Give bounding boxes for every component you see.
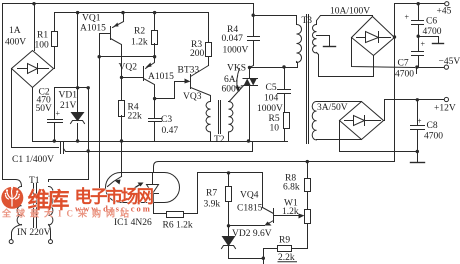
wire R9 left to bottom node <box>264 249 278 259</box>
ground mid bar <box>433 43 444 45</box>
wire T3 upper secondary bottom to bridge2 bottom <box>317 53 374 77</box>
wire LED cathode to R6 <box>154 204 167 214</box>
wire C2 column <box>54 88 56 142</box>
capacitor C1 1/400V plates <box>61 143 64 154</box>
capacitor C6 4700 column <box>418 4 420 52</box>
node dot R7 top <box>227 171 230 174</box>
node dot x88 col top <box>87 86 90 89</box>
capacitor C6 plates <box>412 21 424 25</box>
svg-text:600V: 600V <box>222 85 243 95</box>
wire bottom rail from VD2 <box>229 247 264 259</box>
rectifier bridge1 1A/400V diamond <box>12 51 54 88</box>
terminal IN left <box>9 240 13 244</box>
transformer T2 right winding <box>229 101 234 141</box>
svg-text:104: 104 <box>264 94 279 104</box>
wire bridge1 top corner feed <box>34 4 36 51</box>
wire bridge3 right corner to +12 rail <box>384 100 447 121</box>
transformer T3 lower secondary 3A winding <box>312 101 316 139</box>
transformer T3 primary winding <box>297 24 302 62</box>
svg-text:VD2 9.6V: VD2 9.6V <box>232 229 272 239</box>
node dot VD2/emitter junction <box>227 224 230 227</box>
node sample rail dot R8 <box>306 160 309 163</box>
node C5 top dot <box>282 65 285 68</box>
capacitor C5 104/1000V column <box>284 68 286 113</box>
node C4 top rail corner dot <box>252 14 255 17</box>
svg-text:C6: C6 <box>426 17 437 27</box>
svg-text:VQ1: VQ1 <box>82 14 101 24</box>
diode inside bridge3 <box>345 120 381 122</box>
svg-text:+: + <box>417 117 422 126</box>
transformer T3 core <box>307 15 309 144</box>
capacitor C7 plates <box>412 52 424 56</box>
ground tap bar <box>324 46 336 48</box>
resistor R8 column <box>307 162 309 210</box>
svg-text:T1: T1 <box>29 176 40 186</box>
wire C4 column lower to VKS node <box>250 41 254 68</box>
svg-text:C3: C3 <box>161 115 172 125</box>
wire VD2 top column R7 <box>228 173 230 237</box>
rectifier bridge3 3A/50V diamond <box>340 102 384 140</box>
watermark logo circle <box>1 187 23 209</box>
wire bridge2 plus up to +45 rail <box>395 4 447 38</box>
diode inside bridge2 <box>357 37 391 39</box>
svg-text:BT33: BT33 <box>178 66 200 76</box>
node second rail dot VD1 <box>76 11 79 14</box>
wire left border + top rail <box>3 4 254 180</box>
capacitor C3 0.47 plates <box>149 119 162 122</box>
BT33 emitter arrow <box>185 79 191 84</box>
svg-text:C1 1/400V: C1 1/400V <box>12 155 54 165</box>
svg-text:200: 200 <box>190 49 205 59</box>
node bridge2 right corner dot <box>393 35 396 38</box>
transistor VQ2 A1015 <box>144 61 155 99</box>
wire VQ1 base lead <box>100 33 111 35</box>
wire 3A winding top to bridge3 <box>317 101 362 103</box>
watermark logo branches <box>6 189 20 206</box>
ground C8 bar <box>411 162 425 164</box>
wire bottom rail stub down <box>263 259 265 264</box>
resistor R8 body <box>305 179 311 192</box>
node second rail dot VQ1 emitter <box>121 11 124 14</box>
capacitor C8 column <box>417 100 419 152</box>
VKS gate wire to T2 <box>229 86 243 102</box>
svg-text:R9: R9 <box>279 236 290 246</box>
VKS triac triangles <box>244 79 257 86</box>
node dot VQ2 collector junction <box>153 97 156 100</box>
node VKS top dot <box>248 66 251 69</box>
wire sample rail y161.6 left to opto LED anode <box>154 162 308 173</box>
terminal -45V <box>444 65 448 69</box>
wire common rail A <box>33 88 288 142</box>
resistor R5 body <box>284 113 290 129</box>
thyristor VKS triac bars <box>243 68 258 142</box>
resistor R3 body <box>206 43 212 57</box>
svg-text:R7: R7 <box>206 189 217 199</box>
svg-text:IN 220V: IN 220V <box>17 228 51 238</box>
node dot VQ1 collector junction <box>120 76 123 79</box>
transformer T2 left winding <box>206 101 211 141</box>
resistor R4 22k column <box>121 78 123 142</box>
wire 21V node horizontal C2 to VD1 to x88 col <box>55 87 89 89</box>
resistor R2 body <box>152 31 158 45</box>
wire bridge2 left corner to -45 wire <box>352 38 415 68</box>
resistor R2 column <box>154 13 156 61</box>
svg-text:VQ4: VQ4 <box>240 191 259 201</box>
wire VD1 column <box>77 13 79 142</box>
wire C7 bottom to -45V <box>417 56 447 74</box>
resistor R6 body <box>167 212 184 218</box>
svg-text:VD1: VD1 <box>59 91 78 101</box>
svg-text:+: + <box>405 13 410 22</box>
capacitor C4 0.047/1000V plates <box>248 37 260 41</box>
wire opto column below rail A with arrow <box>121 142 123 177</box>
svg-text:1.2k: 1.2k <box>131 38 148 48</box>
svg-text:1000V: 1000V <box>257 104 283 114</box>
wire VQ2 base lead <box>122 77 144 79</box>
rectifier bridge2 10A/100V diamond <box>352 17 395 56</box>
svg-text:0.047: 0.047 <box>222 34 244 44</box>
node dot C8 bottom junction <box>416 150 419 153</box>
resistor R4 body <box>119 101 125 117</box>
svg-text:VQ3: VQ3 <box>183 92 202 102</box>
svg-text:4700: 4700 <box>423 27 442 37</box>
svg-text:22k: 22k <box>128 112 143 122</box>
VQ4 emitter arrow <box>265 222 272 226</box>
resistor R1 column <box>54 13 56 69</box>
resistor R7 body <box>226 187 232 202</box>
node dot link R2 column <box>153 55 156 58</box>
svg-text:4700: 4700 <box>424 132 443 142</box>
node +12 rail dot C8 <box>416 98 419 101</box>
wire W1 bottom to R9 right <box>292 224 308 249</box>
node +45 rail dot C6 <box>417 2 420 5</box>
node top-left rail dot <box>32 2 35 5</box>
wire R5 bottom to rail A <box>284 129 286 142</box>
transformer T2 core <box>219 101 221 134</box>
transformer T1 left winding <box>17 186 21 224</box>
W1 wiper arrow <box>275 215 302 217</box>
transistor VQ1 emitter arrow <box>114 23 119 27</box>
wire R6 right up to y173 line <box>184 213 198 215</box>
svg-text:C1815: C1815 <box>237 204 263 214</box>
transformer T3 upper secondary <box>312 24 316 52</box>
node dot bottom rail R9 <box>262 257 265 260</box>
wire to ground mid <box>419 37 439 44</box>
node rail A dot VD1 <box>76 139 79 142</box>
svg-text:100: 100 <box>35 41 50 51</box>
svg-text:R2: R2 <box>134 27 145 37</box>
wire second rail <box>55 12 209 14</box>
svg-text:400V: 400V <box>5 38 26 48</box>
svg-text:C7: C7 <box>398 59 409 69</box>
svg-text:10A/100V: 10A/100V <box>330 7 370 17</box>
svg-text:R6 1.2k: R6 1.2k <box>163 221 193 231</box>
wire C1 rail right <box>64 142 253 152</box>
svg-text:−45V: −45V <box>439 57 460 67</box>
svg-text:+: + <box>421 40 426 49</box>
optocoupler IC1 4N26 stadium <box>106 173 180 203</box>
wire bridge3 left corner to C8 ground <box>340 121 418 152</box>
transformer T1 right winding <box>49 186 53 224</box>
transformer T1 core <box>34 184 37 228</box>
potentiometer W1 body <box>305 210 311 224</box>
svg-text:A1015: A1015 <box>148 72 174 82</box>
VKS adjust arrow <box>237 69 240 90</box>
svg-text:1000V: 1000V <box>223 46 249 56</box>
svg-text:C8: C8 <box>427 121 438 131</box>
svg-text:21V: 21V <box>60 101 77 111</box>
resistor R1 body <box>52 32 58 47</box>
node dot VD1 top node <box>76 86 79 89</box>
wire collector link line y173 <box>198 173 263 214</box>
svg-text:10: 10 <box>270 124 280 134</box>
wire 3A winding bottom to bridge3 <box>317 139 362 141</box>
svg-text:6A/: 6A/ <box>224 75 239 85</box>
transistor VQ2 emitter arrow <box>146 63 152 68</box>
node rail A dot R4/opto column <box>120 139 123 142</box>
opto LED <box>147 173 159 204</box>
svg-text:R1: R1 <box>37 31 48 41</box>
svg-text:A1015: A1015 <box>80 24 106 34</box>
wire snubber bottom: VKS node to C5 node to T3 primary bottom <box>250 62 298 68</box>
capacitor C8 plates <box>411 126 425 130</box>
node second rail dot R2 <box>153 11 156 14</box>
svg-text:50V: 50V <box>36 104 53 114</box>
wire bridge1 left corner down to C1 rail <box>12 69 59 148</box>
zener diode VD2 9.6V <box>223 237 235 246</box>
svg-text:+12V: +12V <box>434 104 456 114</box>
svg-text:1A: 1A <box>9 26 21 36</box>
diode inside bridge1 <box>18 68 49 70</box>
wire T1 left top lead to border <box>3 180 22 187</box>
svg-text:T3: T3 <box>302 16 313 26</box>
wire top rail to C4 column upper <box>253 4 255 37</box>
resistor R3 column <box>208 13 210 66</box>
transistor VQ3 BT33 <box>191 66 211 102</box>
zener diode VD1 21V <box>72 113 84 121</box>
capacitor C2 470/50V plates <box>48 120 63 123</box>
wire T3 tap to ground <box>317 36 330 47</box>
svg-text:C5: C5 <box>266 83 277 93</box>
opto phototransistor lead with arrow <box>108 142 122 187</box>
svg-text:R5: R5 <box>269 114 280 124</box>
terminal +12V <box>444 97 448 101</box>
wire x88 column down to T1 <box>49 88 89 182</box>
node dot x99 R2 link <box>98 55 101 58</box>
node C1 rail dot at x88 <box>87 149 90 152</box>
wire T3 primary top feed <box>254 16 297 25</box>
wire bridge2 long vertical to sample rail <box>308 38 395 162</box>
svg-text:T2: T2 <box>214 135 225 145</box>
svg-text:0.47: 0.47 <box>162 126 179 136</box>
wire T1 right bottom to terminal <box>49 225 51 240</box>
svg-text:6.8k: 6.8k <box>283 183 300 193</box>
opto light arrow <box>134 184 142 189</box>
node dot C6 bottom / ground <box>417 35 420 38</box>
wire VQ2 collector to BT33 emitter jog <box>155 82 188 99</box>
wire C8 ground stem <box>417 152 419 163</box>
svg-text:+45: +45 <box>437 7 452 17</box>
wire x99 long column to optocoupler <box>100 34 106 189</box>
svg-text:3.9k: 3.9k <box>204 200 221 210</box>
wire T3 upper secondary top to bridge2 <box>317 16 373 25</box>
svg-text:VQ2: VQ2 <box>119 63 138 73</box>
svg-text:全球最大IC采购网站: 全球最大IC采购网站 <box>1 208 134 219</box>
svg-text:4700: 4700 <box>395 70 414 80</box>
terminal +45 <box>445 2 449 6</box>
wire C3 column <box>154 99 156 142</box>
wire T1 left bottom to terminal <box>12 225 22 240</box>
resistor R9 body <box>278 246 292 252</box>
transistor VQ1 A1015 <box>111 13 124 78</box>
svg-text:IC1 4N26: IC1 4N26 <box>114 218 152 228</box>
wire link y56.7 <box>100 56 155 58</box>
terminal IN right <box>49 240 53 244</box>
transistor VQ4 C1815 <box>229 208 275 226</box>
svg-text:VKS: VKS <box>227 64 246 74</box>
node dot -45 junction <box>415 65 418 68</box>
svg-text:1.2k: 1.2k <box>282 207 299 217</box>
svg-text:3A/50V: 3A/50V <box>317 103 348 113</box>
node rail A dot VKS bottom <box>247 139 250 142</box>
capacitor C5 plates <box>278 90 291 94</box>
node rail A dot C2 <box>53 139 56 142</box>
